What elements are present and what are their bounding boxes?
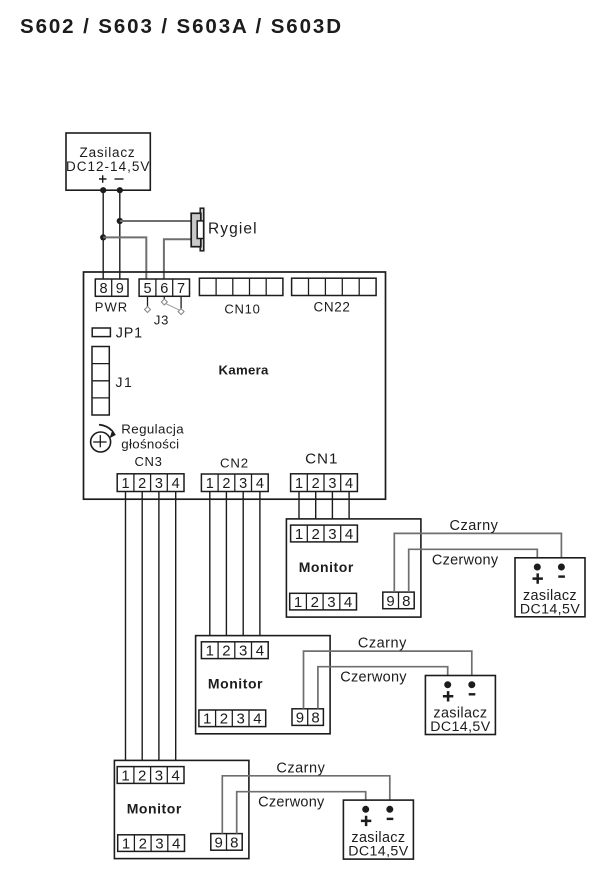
svg-text:2: 2 — [138, 476, 146, 492]
connector monitor 2 pins 9,8 — [292, 709, 323, 727]
svg-text:2: 2 — [312, 476, 320, 492]
svg-text:2: 2 — [138, 767, 146, 784]
connector monitor 1 top pins 1-4 — [291, 525, 358, 543]
wire CN2 pin 4 to monitor 2 pin 4 — [259, 492, 261, 643]
minus terminal dot — [468, 681, 475, 688]
plus terminal dot — [444, 681, 451, 688]
wire plus from Zasilacz to PWR pin 8 — [102, 190, 104, 279]
connector CN3 pins 1-4 — [117, 474, 184, 492]
svg-text:Kamera: Kamera — [219, 363, 270, 378]
volume potentiometer — [91, 425, 116, 452]
svg-text:Monitor: Monitor — [208, 676, 263, 692]
svg-text:CN1: CN1 — [305, 451, 338, 468]
monitor 3 box — [114, 760, 249, 858]
wire CN2 pin 3 to monitor 2 pin 3 — [242, 492, 244, 643]
svg-text:Monitor: Monitor — [127, 800, 182, 816]
svg-text:1: 1 — [122, 836, 130, 853]
svg-text:DC14,5V: DC14,5V — [430, 719, 491, 735]
svg-text:Czerwony: Czerwony — [340, 670, 407, 686]
camera unit Kamera box — [84, 272, 386, 499]
svg-text:6: 6 — [160, 281, 168, 297]
wire CN3 pin 1 to monitor 3 pin 1 — [125, 492, 127, 768]
svg-text:4: 4 — [345, 476, 353, 492]
svg-text:3: 3 — [155, 836, 163, 853]
svg-text:9: 9 — [215, 834, 223, 851]
wire CN1 pin 1 to monitor 1 pin 1 — [298, 492, 300, 526]
wire Czerwony: monitor 1 pin 8 to zasilacz plus — [409, 549, 538, 592]
svg-text:2: 2 — [311, 594, 319, 611]
plus terminal dot — [362, 806, 369, 813]
svg-text:4: 4 — [345, 526, 353, 543]
power supply zasilacz DC14,5V (2) — [425, 676, 495, 736]
minus terminal dot — [386, 806, 393, 813]
svg-text:1: 1 — [206, 643, 214, 660]
svg-text:Monitor: Monitor — [299, 559, 354, 575]
wire Czarny: monitor 3 pin 9 to zasilacz minus — [222, 776, 389, 834]
svg-text:PWR: PWR — [95, 300, 128, 315]
power supply zasilacz DC14,5V (1) — [515, 558, 585, 618]
svg-text:DC14,5V: DC14,5V — [348, 844, 409, 860]
svg-text:2: 2 — [220, 711, 228, 728]
svg-text:3: 3 — [239, 476, 247, 492]
connector monitor 2 top pins 1-4 — [201, 642, 268, 660]
svg-text:głośności: głośności — [121, 437, 179, 452]
wire plus branch to J3 pin 5 — [103, 237, 146, 279]
svg-text:4: 4 — [172, 767, 180, 784]
connector CN2 pins 1-4 — [201, 474, 268, 492]
jumper J3 switch symbol — [145, 296, 185, 314]
plus mark — [361, 816, 371, 826]
svg-text:J3: J3 — [154, 313, 169, 328]
svg-text:3: 3 — [155, 767, 163, 784]
svg-text:9: 9 — [296, 710, 304, 727]
connector monitor 3 bottom pins 1-4 — [118, 835, 185, 853]
minus terminal mark — [115, 178, 124, 180]
connector J1 — [92, 347, 109, 416]
svg-text:1: 1 — [121, 767, 129, 784]
svg-text:7: 7 — [177, 281, 185, 297]
svg-text:9: 9 — [116, 281, 124, 297]
wire minus from Zasilacz to PWR pin 9 — [119, 190, 121, 279]
svg-text:1: 1 — [295, 476, 303, 492]
connector PWR pins 8-9 — [95, 279, 128, 297]
label Regulacja glosnosci — [121, 422, 184, 452]
wire CN2 pin 1 to monitor 2 pin 1 — [209, 492, 211, 643]
svg-text:JP1: JP1 — [116, 326, 143, 342]
wire minus branch to Rygiel upper terminal — [120, 220, 192, 222]
wire from Rygiel lower terminal to J3 pin 6 — [164, 239, 192, 279]
svg-text:Czerwony: Czerwony — [432, 552, 499, 568]
wire Czerwony: monitor 2 pin 8 to zasilacz plus — [318, 667, 448, 709]
svg-text:S602 / S603 / S603A / S603D: S602 / S603 / S603A / S603D — [20, 15, 343, 38]
plus mark — [443, 691, 453, 701]
svg-text:4: 4 — [344, 594, 352, 611]
wire CN1 pin 3 to monitor 1 pin 3 — [331, 492, 333, 526]
svg-text:1: 1 — [203, 711, 211, 728]
svg-text:Regulacja: Regulacja — [121, 422, 184, 437]
svg-text:4: 4 — [256, 476, 264, 492]
svg-text:1: 1 — [294, 594, 302, 611]
svg-text:1: 1 — [295, 526, 303, 543]
svg-text:1: 1 — [121, 476, 129, 492]
svg-text:Czarny: Czarny — [450, 518, 499, 534]
minus mark — [469, 693, 476, 695]
wire CN3 pin 2 to monitor 3 pin 2 — [141, 492, 143, 768]
electric strike Rygiel — [191, 208, 204, 251]
wire CN3 pin 4 to monitor 3 pin 4 — [175, 492, 177, 768]
svg-text:1: 1 — [206, 476, 214, 492]
svg-text:CN22: CN22 — [313, 300, 350, 315]
connector monitor 2 bottom pins 1-4 — [199, 710, 266, 728]
svg-text:3: 3 — [328, 526, 336, 543]
connector monitor 1 pins 9,8 — [383, 592, 414, 610]
svg-text:3: 3 — [328, 476, 336, 492]
svg-text:4: 4 — [172, 476, 180, 492]
connector monitor 1 bottom pins 1-4 — [290, 593, 357, 611]
power supply zasilacz DC14,5V (3) — [343, 800, 413, 860]
wire CN3 pin 3 to monitor 3 pin 3 — [158, 492, 160, 768]
svg-text:Zasilacz: Zasilacz — [80, 145, 136, 160]
svg-text:2: 2 — [222, 476, 230, 492]
svg-text:3: 3 — [237, 711, 245, 728]
wire CN2 pin 2 to monitor 2 pin 2 — [225, 492, 227, 643]
wire CN1 pin 2 to monitor 1 pin 2 — [315, 492, 317, 526]
connector monitor 3 top pins 1-4 — [117, 767, 184, 785]
wire CN1 pin 4 to monitor 1 pin 4 — [348, 492, 350, 526]
svg-text:4: 4 — [172, 836, 180, 853]
svg-text:2: 2 — [312, 526, 320, 543]
plus terminal dot — [534, 564, 541, 571]
connector CN10 — [199, 278, 283, 295]
connector CN22 — [292, 278, 377, 295]
junction dot on minus wire — [117, 218, 123, 224]
svg-text:4: 4 — [256, 643, 264, 660]
junction dot on plus wire — [100, 234, 106, 240]
svg-text:2: 2 — [222, 643, 230, 660]
svg-text:8: 8 — [230, 834, 238, 851]
svg-text:9: 9 — [386, 593, 394, 610]
connector monitor 3 pins 9,8 — [211, 834, 242, 852]
svg-text:Czerwony: Czerwony — [258, 795, 325, 811]
connector CN1 pins 1-4 — [291, 474, 358, 492]
svg-text:CN10: CN10 — [224, 302, 260, 317]
plus terminal mark — [99, 175, 107, 183]
svg-text:8: 8 — [99, 281, 107, 297]
svg-text:2: 2 — [139, 836, 147, 853]
svg-text:CN2: CN2 — [220, 456, 249, 471]
minus mark — [387, 818, 394, 820]
plus mark — [533, 573, 543, 583]
wire Czarny: monitor 1 pin 9 to zasilacz minus — [394, 533, 561, 592]
connector J3 pins 5-7 — [139, 279, 189, 297]
monitor 2 box — [196, 636, 331, 734]
svg-text:3: 3 — [327, 594, 335, 611]
svg-text:3: 3 — [155, 476, 163, 492]
monitor 1 box — [286, 519, 421, 617]
svg-text:J1: J1 — [116, 374, 134, 390]
wire Czarny: monitor 2 pin 9 to zasilacz minus — [304, 651, 472, 709]
svg-text:Czarny: Czarny — [276, 760, 325, 776]
svg-text:DC12-14,5V: DC12-14,5V — [66, 159, 150, 174]
svg-text:3: 3 — [239, 643, 247, 660]
wire Czerwony: monitor 3 pin 8 to zasilacz plus — [237, 792, 366, 834]
junction dot minus terminal — [117, 187, 123, 193]
minus terminal dot — [558, 564, 565, 571]
junction dot plus terminal — [100, 187, 106, 193]
jumper JP1 — [92, 328, 110, 337]
power supply Zasilacz DC12-14,5V — [66, 133, 150, 190]
svg-text:8: 8 — [402, 593, 410, 610]
svg-text:CN3: CN3 — [135, 454, 163, 469]
svg-text:4: 4 — [253, 711, 261, 728]
svg-text:8: 8 — [311, 710, 319, 727]
minus mark — [558, 575, 565, 577]
svg-text:Czarny: Czarny — [358, 636, 407, 652]
svg-text:Rygiel: Rygiel — [208, 221, 258, 238]
svg-text:DC14,5V: DC14,5V — [520, 601, 581, 617]
svg-text:5: 5 — [143, 281, 151, 297]
